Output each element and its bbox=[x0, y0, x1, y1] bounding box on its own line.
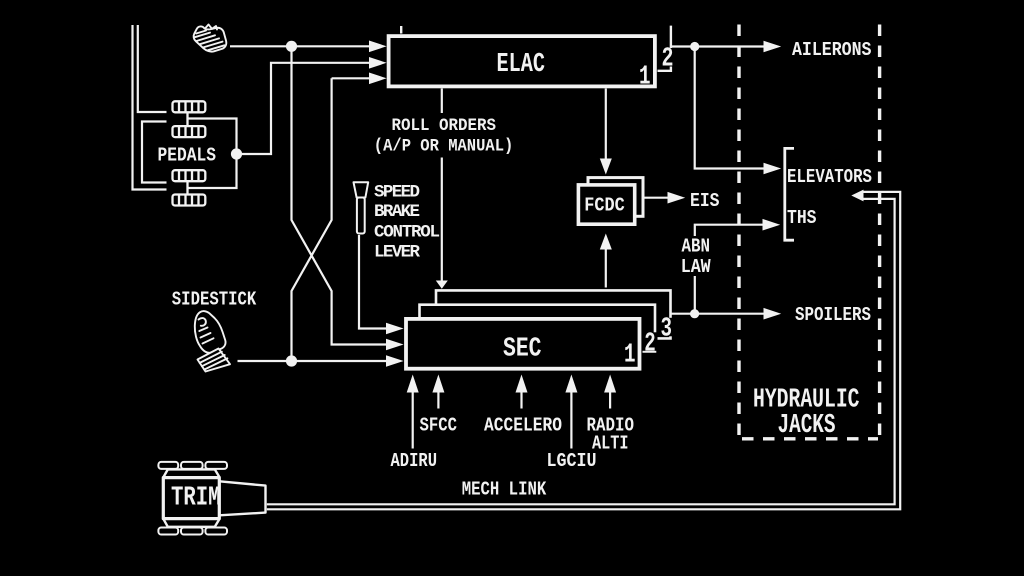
speed brake lever icon bbox=[354, 182, 369, 233]
svg-text:(A/P OR MANUAL): (A/P OR MANUAL) bbox=[374, 137, 514, 157]
wire left outer vertical to pedals lower pair bbox=[133, 25, 167, 190]
wire left inner vertical to pedals upper pair bbox=[138, 25, 167, 112]
trim wheel icon bbox=[158, 462, 265, 535]
svg-text:SFCC: SFCC bbox=[420, 415, 458, 437]
wire ELAC down to FCDC bbox=[605, 89, 607, 160]
svg-text:ALTI: ALTI bbox=[592, 433, 629, 455]
pedal pair connectors bbox=[186, 113, 188, 195]
arrow roll orders down into SEC3 bbox=[436, 281, 448, 289]
svg-text:ACCELERO: ACCELERO bbox=[484, 415, 562, 437]
svg-text:SPEED: SPEED bbox=[374, 183, 420, 203]
svg-text:SPOILERS: SPOILERS bbox=[795, 304, 871, 326]
arrow LGCIU up bbox=[565, 375, 577, 393]
node spoiler-THS junction bbox=[690, 309, 699, 318]
arrow into SEC 1 bbox=[386, 323, 404, 335]
box SEC2 partial outline bbox=[420, 305, 656, 352]
wire ELAC roll orders down to SEC bbox=[441, 89, 443, 282]
hydraulic jacks dashed boundary bbox=[739, 25, 880, 441]
wire captain branch crossing to SEC input 2 bbox=[292, 46, 387, 344]
sidestick FO hand icon bbox=[195, 311, 230, 371]
wire bracket linking pedal pairs bbox=[142, 122, 167, 183]
wire SEC output to SPOILERS bbox=[671, 313, 765, 315]
arrow into ELAC 1 bbox=[369, 41, 387, 53]
wire ACCELERO up to SEC bbox=[520, 387, 522, 409]
svg-text:1: 1 bbox=[639, 62, 651, 92]
wire pedals junction to ELAC input 2 bbox=[237, 63, 370, 154]
arrow to ELEVATORS bbox=[764, 163, 782, 175]
arrow down into FCDC bbox=[600, 159, 612, 175]
wire ELAC output to AILERONS bbox=[671, 45, 764, 47]
box SEC3 partial outline bbox=[436, 290, 671, 338]
wire ABN LAW to THS bbox=[695, 225, 763, 314]
arrow ADIRU up bbox=[407, 375, 419, 393]
wire SFCC up to SEC bbox=[437, 387, 439, 409]
svg-text:SEC: SEC bbox=[503, 335, 542, 365]
arrow SFCC up bbox=[432, 375, 444, 393]
node aileron-elevator junction bbox=[690, 42, 699, 51]
svg-text:ADIRU: ADIRU bbox=[391, 450, 438, 472]
node FO sidestick junction bbox=[286, 355, 297, 366]
svg-text:FCDC: FCDC bbox=[584, 195, 625, 217]
svg-text:MECH LINK: MECH LINK bbox=[462, 479, 547, 501]
box FCDC shadow bbox=[588, 178, 643, 217]
svg-text:2: 2 bbox=[662, 44, 674, 74]
bracket elevators-THS bbox=[785, 148, 794, 240]
arrow ACCELERO up bbox=[516, 375, 528, 393]
arrowheads bbox=[369, 41, 864, 393]
wire captain sidestick to ELAC input 1 bbox=[230, 45, 369, 47]
svg-text:CONTROL: CONTROL bbox=[374, 223, 440, 243]
wire speed brake lever to SEC input 1 bbox=[359, 235, 386, 329]
svg-text:ROLL ORDERS: ROLL ORDERS bbox=[392, 116, 497, 136]
arrow up into FCDC bbox=[600, 234, 612, 250]
sidestick captain hand icon bbox=[194, 25, 227, 52]
svg-text:1: 1 bbox=[624, 341, 636, 371]
box ELAC2 partial outline bbox=[401, 26, 671, 71]
arrow to SPOILERS bbox=[764, 308, 782, 320]
wire ADIRU up to SEC bbox=[412, 387, 414, 449]
svg-text:LAW: LAW bbox=[681, 256, 711, 278]
wire pedals upper pair to junction bbox=[188, 119, 237, 189]
arrow into SEC 3 bbox=[386, 355, 404, 367]
svg-text:LGCIU: LGCIU bbox=[547, 450, 597, 472]
wire branch down to ELEVATORS bbox=[695, 47, 764, 169]
pedal icons bbox=[173, 101, 206, 205]
node pedals junction bbox=[231, 148, 242, 159]
svg-text:ABN: ABN bbox=[682, 236, 711, 258]
label ROLL ORDERS bbox=[374, 113, 514, 158]
box ELAC bbox=[389, 36, 655, 86]
wire SEC up to FCDC bbox=[605, 248, 607, 288]
svg-text:JACKS: JACKS bbox=[778, 411, 836, 441]
mech link double line from TRIM to THS bbox=[267, 192, 900, 509]
svg-text:2: 2 bbox=[644, 329, 656, 359]
box SEC bbox=[406, 319, 640, 369]
svg-text:AILERONS: AILERONS bbox=[792, 39, 872, 61]
arrow to THS bbox=[763, 219, 781, 231]
arrow into ELAC 2 bbox=[369, 57, 387, 69]
arrow mech link to THS bbox=[851, 190, 863, 202]
svg-text:THS: THS bbox=[787, 207, 817, 229]
wire LGCIU up to SEC bbox=[570, 387, 572, 449]
wire RADIO ALTI up to SEC bbox=[609, 387, 611, 409]
arrow to EIS bbox=[668, 192, 686, 204]
svg-text:EIS: EIS bbox=[690, 190, 720, 212]
svg-text:PEDALS: PEDALS bbox=[158, 145, 217, 167]
svg-text:TRIM: TRIM bbox=[171, 483, 221, 513]
svg-text:BRAKE: BRAKE bbox=[374, 202, 420, 222]
wire FO sidestick to SEC input 3 bbox=[238, 360, 387, 362]
arrow RADIO ALTI up bbox=[604, 375, 616, 393]
arrow to AILERONS bbox=[764, 41, 782, 53]
wire ELAC input 3 crossing from FO sidestick bbox=[292, 78, 370, 361]
node captain sidestick junction bbox=[286, 41, 297, 52]
svg-text:ELEVATORS: ELEVATORS bbox=[787, 166, 872, 188]
box FCDC bbox=[578, 185, 634, 224]
arrow into ELAC 3 bbox=[369, 73, 387, 85]
svg-text:LEVER: LEVER bbox=[374, 243, 420, 263]
svg-text:3: 3 bbox=[661, 315, 673, 345]
label ABN LAW bbox=[678, 236, 713, 278]
wire FCDC to EIS bbox=[642, 197, 669, 199]
svg-text:ELAC: ELAC bbox=[497, 50, 546, 80]
arrow into SEC 2 bbox=[386, 339, 404, 351]
svg-text:SIDESTICK: SIDESTICK bbox=[172, 289, 257, 311]
